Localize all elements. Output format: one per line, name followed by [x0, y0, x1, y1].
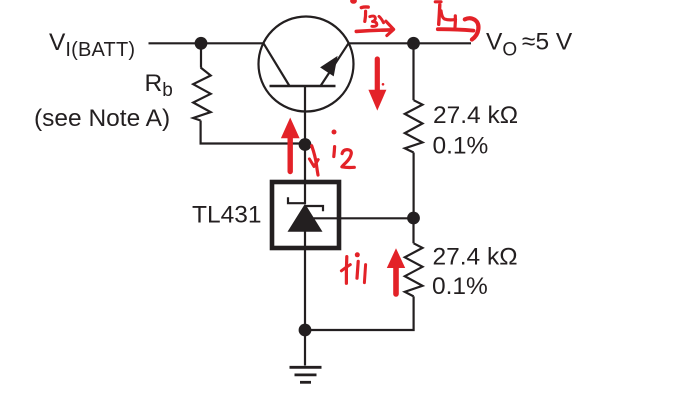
TL431 cathode bar left with up tick [288, 197, 306, 203]
wire: junction down to R_b top [200, 43, 202, 67]
node: V_O junction dot [407, 37, 420, 50]
svg-text:27.4 kΩ: 27.4 kΩ [433, 102, 518, 129]
red annotation: i4 label (ī₄ with curled arrow) [435, 2, 478, 40]
node: base junction dot [299, 138, 312, 151]
wire: R1 bottom to ref node [413, 153, 415, 219]
node: V_I / R_b junction dot [195, 37, 208, 50]
transistor Q1 emitter arrow [320, 56, 338, 77]
red annotation: stray ink blob top edge [350, 0, 357, 4]
wire: output from emitter to V_O [349, 42, 471, 44]
TL431 anode triangle [288, 204, 323, 232]
wire: V_O node down to R1 top [412, 43, 414, 100]
wire: base lead from base bar down to TL431 cathode [304, 87, 306, 205]
svg-text:TL431: TL431 [192, 202, 261, 229]
node: reference divider junction dot [407, 212, 420, 225]
resistor R_b zigzag [193, 68, 211, 121]
svg-text:(see Note A): (see Note A) [34, 105, 170, 132]
svg-text:0.1%: 0.1% [433, 133, 489, 160]
op-amp U1 TL431 box [272, 182, 339, 248]
red arrow: current i1 direction (up, at lower resistor) [387, 248, 405, 294]
ground [290, 367, 322, 382]
wire: ref node down to R2 top [412, 218, 414, 243]
red annotation: stray dot near down arrow [382, 83, 385, 86]
red annotation: small hooked down arrow near base node [309, 146, 318, 175]
wire: V_I(BATT) input to transistor collector [149, 42, 265, 44]
wire: R_b bottom L-shape to base node [201, 121, 305, 144]
svg-text:27.4 kΩ: 27.4 kΩ [433, 244, 518, 271]
red annotation: i1 text with small down arrow glyph [341, 252, 365, 283]
node: ground junction dot [299, 324, 312, 337]
red annotation: i3 label (ī₃ with arrow) [356, 7, 393, 36]
wire: TL431 reference to divider node [314, 217, 414, 219]
svg-text:0.1%: 0.1% [432, 273, 488, 300]
resistor R1 zigzag (upper 27.4k) [405, 100, 423, 152]
transistor Q1 collector lead [264, 43, 290, 86]
red arrow: current i2 direction (up, into transistor base) [281, 118, 300, 172]
transistor Q1 emitter lead [321, 43, 349, 86]
wire: R2 bottom L-shape to ground node [305, 296, 414, 330]
red arrow: current i3 direction (down, at divider top) [368, 59, 386, 111]
wire: TL431 anode lead down to ground node [304, 232, 306, 331]
red annotation: i2 text [332, 130, 355, 168]
wire: ground stem [304, 330, 306, 366]
transistor Q1 base bar [270, 85, 336, 88]
resistor R2 zigzag (lower 27.4k) [405, 243, 423, 296]
transistor Q1 circle [259, 17, 354, 112]
TL431 cathode bar right with down tick [305, 206, 324, 211]
